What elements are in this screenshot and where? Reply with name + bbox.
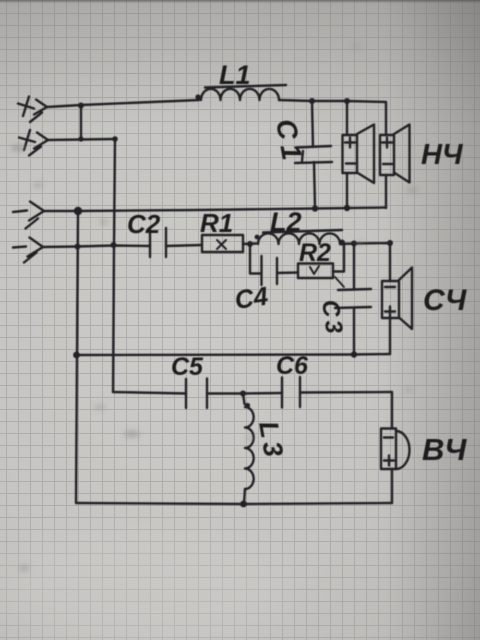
- wire: left long vertical (minus bus): [76, 211, 78, 503]
- label ВЧ: [422, 432, 467, 467]
- wire: C4 branch left leg: [250, 244, 261, 274]
- capacitor C1: [295, 101, 332, 208]
- wire: long vertical feed to C2/C5: [113, 139, 115, 392]
- wire: L1 to НЧ top rail: [279, 100, 386, 135]
- faint paper smudges: [11, 43, 418, 572]
- svg-text:C6: C6: [276, 352, 309, 380]
- capacitor C2: [150, 228, 202, 257]
- node: dot at (354,243): [351, 241, 357, 247]
- wire: minus input / НЧ bottom rail: [44, 208, 386, 212]
- label C4: [233, 281, 271, 315]
- label НЧ: [421, 139, 464, 171]
- svg-text:C3: C3: [316, 298, 348, 338]
- wire: feed to C5: [113, 392, 186, 394]
- node: dot at (390,243): [387, 240, 393, 246]
- input terminal 4 (-): [13, 238, 43, 263]
- label C1 (rotated): [270, 117, 308, 167]
- input terminal 2 (+): [19, 130, 48, 156]
- node: dot at (354,354): [351, 351, 357, 357]
- inductor L3: [243, 394, 254, 504]
- label C6: [276, 352, 309, 380]
- label C5: [171, 353, 204, 381]
- wire: vertical link between + inputs: [80, 105, 82, 139]
- node: junction dot at (81,139): [78, 136, 83, 141]
- label R1: [200, 208, 233, 238]
- node: dot at (243,393): [240, 391, 246, 397]
- node: dot at (75,355): [73, 352, 80, 359]
- label СЧ: [423, 284, 467, 317]
- label R2: [299, 239, 331, 267]
- node: dot at (342,242): [339, 240, 345, 246]
- wire: underline of L1 label: [205, 85, 286, 88]
- node: dot at (243,504): [240, 501, 247, 508]
- svg-text:R2: R2: [299, 239, 331, 267]
- input terminal 3 (-): [13, 202, 44, 229]
- svg-text:R1: R1: [200, 208, 233, 238]
- label C2: [127, 209, 161, 239]
- node: dot at (312,101): [309, 98, 315, 104]
- node: dot at (315,208): [312, 205, 318, 211]
- svg-text:C4: C4: [233, 281, 271, 315]
- capacitor C6: [243, 377, 392, 428]
- resistor R1: [202, 235, 256, 252]
- label L1: [219, 60, 251, 90]
- label C3 (rotated): [316, 298, 348, 338]
- wire: minus input 4 to C2: [43, 246, 150, 248]
- node: junction dot at (81,106): [78, 103, 84, 109]
- speaker BA3 (СЧ): [382, 268, 412, 355]
- inductor L1: [195, 89, 279, 100]
- node: dot at (78,247): [75, 244, 81, 250]
- wire: underline of L2 label: [263, 230, 342, 233]
- capacitor C5: [186, 379, 243, 409]
- label L2: [270, 207, 302, 237]
- capacitor C3: [335, 244, 371, 355]
- wire: second + input horizontal: [48, 139, 115, 140]
- resistor R2: [298, 244, 344, 288]
- svg-text:НЧ: НЧ: [421, 139, 464, 171]
- svg-text:C2: C2: [127, 209, 161, 239]
- wire: ВЧ bottom rail: [76, 503, 392, 504]
- node: dot at (347,208): [344, 205, 350, 211]
- wire: СЧ bottom rail: [77, 354, 391, 355]
- svg-text:C5: C5: [171, 353, 204, 381]
- inductor L2: [255, 233, 340, 244]
- input terminal 1 (+): [18, 97, 47, 123]
- node: big junction dot at (78,211): [74, 207, 82, 215]
- speaker BA2 (НЧ right): [380, 125, 410, 209]
- node: corner dot at (115,139): [112, 136, 118, 142]
- speaker BA4 (ВЧ): [381, 429, 410, 504]
- wire: L2 out to СЧ speaker top: [340, 243, 390, 281]
- svg-text:ВЧ: ВЧ: [422, 432, 467, 467]
- svg-text:СЧ: СЧ: [423, 284, 467, 317]
- speaker BA1 (НЧ left): [343, 101, 375, 208]
- wire: + input to L1: [47, 100, 199, 107]
- node: dot at (347,101): [344, 98, 350, 104]
- node: junction dot at (113,245): [111, 242, 117, 248]
- capacitor C4: [262, 256, 299, 285]
- label L3 (rotated): [253, 419, 289, 463]
- node: dot at (250,244): [247, 241, 253, 247]
